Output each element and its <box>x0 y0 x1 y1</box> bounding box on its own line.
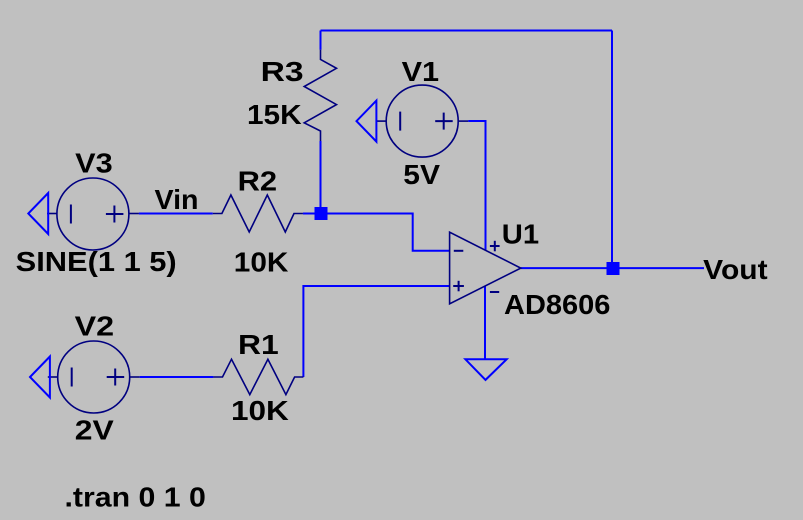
V+ power plus mark <box>490 245 500 247</box>
ground flag at V3 <box>28 193 48 234</box>
svg-text:15K: 15K <box>247 99 302 130</box>
ground flag at V2 <box>30 357 50 398</box>
voltage source V2 <box>48 341 140 413</box>
wire V2 to R1 <box>140 376 214 378</box>
svg-text:R2: R2 <box>238 166 278 197</box>
non-inverting input plus mark <box>453 285 464 287</box>
resistor R1 <box>213 359 303 394</box>
wire V1 plus to op-amp V+ pin <box>468 121 485 250</box>
wire junction to op-amp inverting input <box>321 214 450 251</box>
wire op-amp output to Vout <box>521 267 704 269</box>
svg-text:10K: 10K <box>234 247 289 278</box>
node junction at Vout <box>607 262 620 275</box>
svg-text:SINE(1 1 5): SINE(1 1 5) <box>16 246 177 277</box>
V- power minus mark <box>490 291 499 293</box>
wire top feedback horizontal <box>321 30 613 32</box>
op-amp U1 <box>450 232 521 304</box>
svg-text:AD8606: AD8606 <box>504 289 610 320</box>
svg-text:R3: R3 <box>261 56 304 87</box>
svg-text:2V: 2V <box>75 415 114 446</box>
wire feedback right vertical to output node <box>611 31 613 269</box>
ground flag at V1 <box>357 101 377 142</box>
wire R3 bottom to junction <box>320 141 322 214</box>
wire feedback left vertical to R3 top <box>320 31 322 50</box>
ground below op-amp <box>465 359 506 380</box>
svg-text:Vin: Vin <box>155 184 199 215</box>
wire V3 to R2 (net Vin) <box>139 213 213 215</box>
svg-text:V2: V2 <box>75 311 115 342</box>
voltage source V1 <box>376 85 468 157</box>
svg-text:5V: 5V <box>403 159 440 190</box>
svg-text:.tran 0 1 0: .tran 0 1 0 <box>65 481 206 512</box>
svg-text:U1: U1 <box>502 219 539 250</box>
inverting input minus mark <box>454 250 464 252</box>
svg-text:V3: V3 <box>75 148 113 179</box>
voltage source V3 <box>47 178 139 250</box>
wire op-amp V- pin to ground <box>484 286 486 359</box>
svg-text:V1: V1 <box>402 56 440 87</box>
wire R2 to junction <box>303 213 321 215</box>
wire R1 corner up to op-amp non-inverting input <box>303 286 449 377</box>
node junction at R2/R3 <box>315 207 328 220</box>
resistor R3 <box>304 50 336 141</box>
resistor R2 <box>213 195 303 232</box>
svg-text:10K: 10K <box>231 395 289 426</box>
svg-text:Vout: Vout <box>703 254 767 285</box>
svg-text:R1: R1 <box>238 329 279 360</box>
